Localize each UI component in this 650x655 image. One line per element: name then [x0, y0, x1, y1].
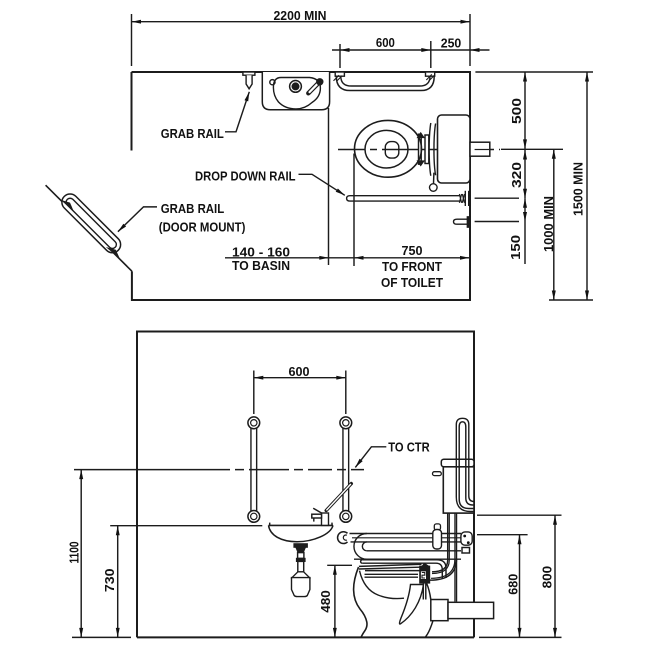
svg-text:150: 150: [508, 235, 523, 260]
seat hinge block: [421, 563, 429, 567]
dimension 140-160 TO BASIN: [328, 108, 330, 265]
basin trap: [294, 544, 307, 547]
seat hinge bar: [425, 135, 429, 164]
tap lever: [326, 484, 351, 511]
door rail mount lugs: [61, 200, 75, 212]
svg-text:OF TOILET: OF TOILET: [381, 275, 443, 290]
toilet lid blade: [400, 585, 424, 625]
dimension 150: [524, 198, 526, 264]
floor extension lines: [72, 636, 131, 638]
svg-text:320: 320: [509, 162, 524, 188]
rail pivot on wall: [461, 532, 472, 545]
svg-text:DROP DOWN RAIL: DROP DOWN RAIL: [195, 169, 296, 184]
centreline at 1100 (dash-dot): [74, 469, 364, 471]
svg-text:250: 250: [441, 36, 462, 51]
drop down rail wall bracket: [464, 191, 466, 206]
dimension 1100: [80, 470, 82, 638]
drop down rail clamp: [459, 194, 461, 203]
bowl flush outlet: [385, 142, 399, 159]
dimension 1000 MIN: [553, 149, 555, 300]
svg-text:1100: 1100: [67, 542, 82, 564]
svg-text:TO CTR: TO CTR: [388, 439, 430, 454]
horizontal grab rail tube (plan): [336, 76, 434, 90]
drop down rail (plan): [347, 196, 460, 201]
svg-text:1500 MIN: 1500 MIN: [571, 162, 586, 216]
dimension 2200 MIN: [131, 14, 133, 66]
pan flush tube: [362, 560, 446, 578]
svg-text:2200 MIN: 2200 MIN: [274, 8, 327, 23]
door leaf (open): [46, 185, 132, 271]
leader: grab rail door mount: [118, 207, 157, 232]
drop down rail end flange (C): [338, 532, 348, 544]
pipe from hinge to spigot: [422, 583, 424, 600]
dimension 680: [519, 535, 521, 638]
basin overflow hole: [270, 80, 275, 85]
pan outlet spigot: [431, 600, 448, 621]
wash basin (plan): [262, 72, 329, 110]
svg-text:(DOOR MOUNT): (DOOR MOUNT): [159, 219, 246, 234]
dimension 750 TO FRONT OF TOILET: [354, 256, 364, 260]
basin drain: [290, 81, 302, 93]
dimension 600 (rails, elevation): [253, 371, 255, 415]
svg-text:800: 800: [540, 566, 555, 589]
drop down rail in use (elevation) loop: [350, 533, 462, 535]
grab rail bracket on top wall (plan): [243, 72, 255, 75]
left wall / door jamb: [131, 72, 133, 151]
room outline (elevation): [137, 332, 474, 638]
mount hatch marks: [334, 75, 340, 81]
svg-text:1000 MIN: 1000 MIN: [541, 196, 556, 252]
dimension 730: [117, 526, 119, 638]
dimension 800: [554, 515, 556, 637]
svg-text:GRAB RAIL: GRAB RAIL: [161, 201, 224, 216]
flush handle through wall: [470, 142, 490, 156]
drop down rail folded up (elevation): [456, 418, 469, 424]
vertical grab rail 1 (elevation): [251, 423, 257, 518]
horizontal grab rail (plan, top right) - mounts: [335, 72, 344, 76]
left extension line 730 (basin height): [110, 525, 262, 527]
flush pipe from cistern: [432, 513, 448, 572]
toilet roll holder (plan): [454, 219, 471, 224]
svg-text:TO BASIN: TO BASIN: [232, 258, 290, 273]
soil pipe through wall: [448, 602, 494, 618]
room walls (plan view): [132, 72, 471, 300]
backrest pad: [434, 524, 440, 530]
dimension 600 (rail, plan): [339, 44, 341, 68]
hinge clamp arrows: [417, 132, 426, 138]
svg-text:680: 680: [506, 574, 521, 595]
cistern detail circle: [433, 173, 435, 184]
toilet seat lines: [359, 564, 422, 566]
toilet cistern (elevation): [441, 459, 474, 467]
dimension 480: [327, 564, 352, 566]
basin tap: [308, 82, 319, 94]
cistern flush lever: [433, 472, 442, 476]
grab rail (door mount) capsule: [62, 194, 121, 253]
svg-text:500: 500: [509, 98, 524, 124]
dimension 320: [524, 150, 526, 198]
svg-text:TO FRONT: TO FRONT: [382, 259, 442, 274]
svg-text:730: 730: [102, 568, 117, 592]
svg-text:480: 480: [318, 590, 333, 613]
basin tap (elevation): [322, 513, 329, 525]
svg-text:600: 600: [376, 35, 395, 50]
svg-text:GRAB RAIL: GRAB RAIL: [161, 126, 224, 141]
toilet pan profile: [354, 567, 367, 637]
hinge clamp plate: [419, 134, 422, 164]
dimension 1500 MIN: [586, 72, 588, 300]
toilet centreline (dash-dot): [338, 149, 500, 151]
dimension 500: [524, 72, 526, 149]
leader: TO CTR: [355, 447, 386, 468]
toilet bowl (plan): [355, 120, 422, 177]
vertical grab rail 2 (elevation): [343, 423, 349, 518]
leader: grab rail: [225, 92, 249, 132]
svg-text:600: 600: [289, 364, 310, 379]
basin inner bowl: [273, 78, 320, 109]
pan inner bowl curve: [360, 571, 405, 599]
dimension 250: [470, 48, 480, 52]
svg-text:750: 750: [402, 243, 423, 258]
leader: drop down rail: [299, 174, 345, 195]
toilet cistern (plan): [438, 115, 471, 183]
toilet seat lid edge (wavy lines): [429, 123, 431, 176]
right extension lines (plan): [475, 71, 593, 73]
wash basin (elevation): [269, 524, 334, 526]
right extension lines (elevation): [477, 514, 562, 516]
